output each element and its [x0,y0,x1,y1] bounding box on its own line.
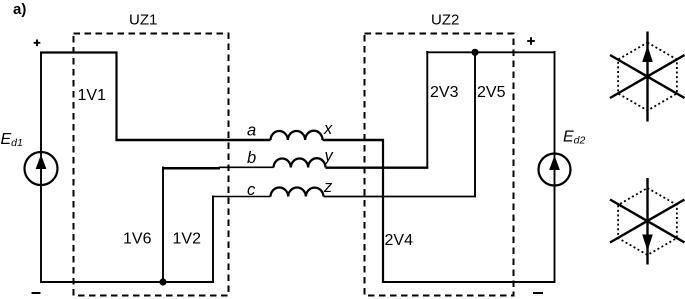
svg-text:2V4: 2V4 [385,232,414,249]
wire: bottom left horizontal [40,281,214,283]
svg-text:1V2: 1V2 [173,231,202,248]
svg-text:a: a [247,122,256,140]
wire: valve 2V5 vertical [474,51,476,198]
wire: phase a horizontal right [323,139,385,141]
wire: phase b horizontal left [162,167,220,170]
wire: phase b horizontal right [326,166,429,168]
svg-text:c: c [247,181,256,199]
star1 vertical axis with arrow [646,32,648,122]
inductor b-y winding [274,158,326,167]
wire: left vertical branch of E_d1 [40,52,42,283]
svg-text:x: x [323,120,333,138]
wire: valve 2V4 vertical [382,139,384,283]
star2 diagonal axis SW-NE [610,200,685,243]
wire: top left horizontal [40,51,118,53]
vector diagram 2 (bottom star) [610,178,685,265]
wire: valve 1V1 vertical [115,52,117,142]
wire: bottom right horizontal [382,281,556,283]
converter box UZ2 (dashed) [365,34,514,296]
junction dot bottom left [159,278,166,285]
star1 diagonal axis SW-NE [610,55,685,98]
vector diagram 1 (top star) [610,32,685,122]
source E_d1 arrowhead [36,155,47,170]
wire: phase a horizontal left [116,139,271,141]
source E_d2 circle [539,154,571,186]
star1 arrowhead up [642,46,653,63]
wire: valve 1V2 vertical [212,196,214,284]
inductor a-x winding [271,131,323,140]
svg-text:a): a) [13,1,26,18]
star2 dotted hexagon [618,188,677,255]
star1 dotted hexagon [618,43,677,111]
svg-text:UZ2: UZ2 [431,12,459,29]
star2 vertical axis with arrow [646,178,648,265]
svg-text:2V5: 2V5 [477,84,506,101]
plus terminal left [34,42,41,44]
inductor c-z winding [271,188,324,197]
svg-text:UZ1: UZ1 [129,12,157,29]
wire: phase c horizontal right [324,196,477,198]
star2 arrowhead down [642,235,653,252]
converter box UZ1 (dashed) [74,34,229,296]
svg-text:1V6: 1V6 [123,231,152,248]
source E_d1 circle [25,152,58,185]
wire: valve 2V3 vertical [426,51,428,169]
star2 diagonal axis NW-SE [610,200,685,243]
svg-text:2V3: 2V3 [430,84,459,101]
wire: phase c horizontal left [212,196,271,198]
star1 diagonal axis NW-SE [610,55,685,98]
svg-text:b: b [247,149,256,167]
wire: top right horizontal [426,51,555,53]
minus terminal left [32,292,41,294]
svg-text:z: z [323,178,333,196]
wire: right vertical branch of E_d2 [554,51,556,283]
source E_d2 arrowhead [549,156,560,171]
wire: valve 1V6 vertical [162,167,164,284]
svg-text:1V1: 1V1 [78,87,107,104]
minus terminal right [533,292,543,294]
plus terminal right [527,40,535,42]
junction dot top right [471,49,478,56]
